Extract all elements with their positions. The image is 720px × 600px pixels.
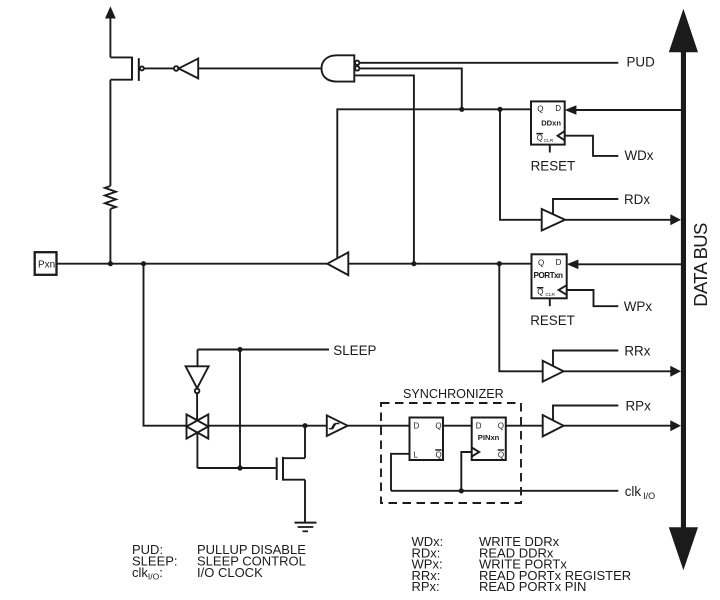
svg-text:Q: Q xyxy=(498,421,504,430)
junction: SLEEP branch xyxy=(237,347,242,352)
svg-text:D: D xyxy=(414,421,420,430)
PINxn Qbar overline xyxy=(498,449,505,451)
buffer U4 RDx xyxy=(542,209,565,231)
svg-text:Q: Q xyxy=(498,451,504,460)
wire: nMOS source to ground xyxy=(304,480,306,523)
wire: PORTxn CLR to RESET xyxy=(549,298,551,306)
wire: DDxn Q net to driver enable xyxy=(337,109,531,258)
wire: PORTxn Q net to RRx buffer input xyxy=(499,264,542,372)
svg-text:SLEEP: SLEEP xyxy=(333,343,376,358)
arrowhead: RDx to bus xyxy=(670,214,681,225)
wire: SLEEP vertical branch xyxy=(239,350,241,469)
wire: net WDx to DDxn clock xyxy=(565,136,619,156)
junction: pin input tap xyxy=(141,261,146,266)
wire: RRx enable xyxy=(553,351,618,367)
wire: pMOS drain to resistor xyxy=(109,80,111,186)
wire: pin rail down to input path xyxy=(144,264,187,426)
wire: data bus to PORTxn D xyxy=(578,263,682,265)
junction: clamp on input path xyxy=(302,423,307,428)
transmission gate U9 xyxy=(187,414,209,438)
svg-text:READ PORTx PIN: READ PORTx PIN xyxy=(479,579,586,594)
wire: nMOS drain to input path xyxy=(304,426,306,459)
wire: DDxn CLR to RESET xyxy=(549,145,551,153)
wire: net PUD xyxy=(360,62,619,64)
wire: data bus to DDxn D xyxy=(576,109,682,111)
DDxn Qbar overline xyxy=(536,133,543,135)
wire: RDx enable xyxy=(553,199,618,215)
svg-text:D: D xyxy=(556,258,562,267)
data bus bar xyxy=(681,52,686,528)
ground xyxy=(295,523,317,532)
wire: transmission gate bottom control xyxy=(196,433,198,468)
arrowhead: RRx to bus xyxy=(670,366,681,377)
wire: net WPx to PORTxn clock xyxy=(567,290,619,306)
svg-text:Q: Q xyxy=(435,421,441,430)
svg-text:PORTxn: PORTxn xyxy=(534,271,564,280)
VCC arrow xyxy=(105,6,116,57)
wire: RPx enable xyxy=(553,406,618,421)
svg-text:D: D xyxy=(555,104,561,113)
arrowhead: RPx to bus xyxy=(670,420,681,431)
svg-text:WPx: WPx xyxy=(624,299,653,314)
svg-text:WDx: WDx xyxy=(625,148,654,163)
wire: DDxn Q to RDx buffer input xyxy=(500,109,542,220)
svg-text:PINxn: PINxn xyxy=(478,433,500,442)
svg-text:L: L xyxy=(414,451,419,460)
svg-text:SYNCHRONIZER: SYNCHRONIZER xyxy=(403,387,504,401)
junction: AND input2 on DDxn Q net xyxy=(459,107,464,112)
svg-text:RDx: RDx xyxy=(624,192,650,207)
wire: AND input2 to DDxn Q net xyxy=(360,68,462,109)
wire: inverter input to AND output xyxy=(198,67,322,69)
junction: RRx tap on PORTxn Q net xyxy=(497,261,502,266)
wire: VCC to pMOS source xyxy=(110,56,131,58)
wire: AND input3 to PORTxn Q net xyxy=(354,75,414,263)
buffer U7 RRx xyxy=(543,361,564,382)
wire: SLEEP to inverter U8 xyxy=(197,350,199,367)
svg-text:RPx:: RPx: xyxy=(412,579,440,594)
wire: PINxn Q to RPx buffer xyxy=(506,425,543,427)
svg-text:Q: Q xyxy=(537,104,543,113)
pad Pxn box xyxy=(35,252,57,275)
wire: RPx buffer to data bus xyxy=(564,425,673,427)
wire: net clk I/O xyxy=(391,490,618,492)
junction: RDx tap on DDxn Q net xyxy=(497,107,502,112)
svg-text:Q: Q xyxy=(538,258,544,267)
flip-flop U12 PINxn box xyxy=(472,418,506,461)
svg-text:Q: Q xyxy=(537,288,543,297)
svg-text:I/O CLOCK: I/O CLOCK xyxy=(197,565,263,580)
wire: latch U11 Q to PINxn D xyxy=(443,425,472,427)
schmitt trigger U10 xyxy=(327,415,348,436)
svg-text:CLR: CLR xyxy=(545,292,555,298)
wire: pin rail Pxn to output driver xyxy=(57,263,328,265)
buffer U13 RPx xyxy=(543,415,564,436)
svg-text:DDxn: DDxn xyxy=(541,119,561,128)
wire: net SLEEP xyxy=(198,349,330,351)
svg-text:DATA BUS: DATA BUS xyxy=(690,223,711,307)
wire: schmitt output to synchronizer xyxy=(348,425,410,427)
wire: RRx buffer to data bus xyxy=(564,370,673,372)
svg-text:Q: Q xyxy=(537,133,543,142)
svg-text:RPx: RPx xyxy=(626,398,652,413)
flip-flop U6 PORTxn box xyxy=(532,254,567,298)
transistor Q2 nMOS clamp xyxy=(277,457,305,481)
wire: sleep clamp to nMOS gate xyxy=(197,467,275,469)
PORTxn clock wedge xyxy=(559,285,567,295)
junction: AND input3 on PORTxn Q net xyxy=(411,261,416,266)
arrowhead: bus to DDxn D xyxy=(565,105,577,115)
svg-text:Q: Q xyxy=(436,451,442,460)
wire: PORTxn Q net rail xyxy=(348,263,531,265)
wire: RDx buffer to data bus xyxy=(565,219,672,221)
flip-flop U5 DDxn box xyxy=(531,101,565,144)
latch U11 box xyxy=(410,418,444,461)
wire: pMOS gate to inverter U1 xyxy=(144,67,174,69)
svg-text:RESET: RESET xyxy=(531,158,576,173)
svg-text:CLR: CLR xyxy=(544,138,554,144)
svg-text:RRx: RRx xyxy=(624,343,650,358)
wire: latch U11 L input xyxy=(391,454,410,491)
inverter U1 (pull-up enable) xyxy=(174,59,198,79)
wire: clk to PINxn clock xyxy=(461,452,471,491)
junction: pull-up on pin rail xyxy=(108,261,113,266)
svg-text:RESET: RESET xyxy=(530,313,575,328)
junction: SLEEP to clamp xyxy=(237,465,242,470)
resistor R1 pull-up xyxy=(105,186,116,209)
svg-text:D: D xyxy=(476,421,482,430)
and-gate U2 (mirrored, pull-up enable) xyxy=(322,55,360,81)
wire: inverter U8 to transmission gate top control xyxy=(196,393,198,420)
arrowhead: bus to PORTxn D xyxy=(567,260,579,270)
tri-state output driver U3 xyxy=(327,252,348,275)
wire: resistor to pin rail xyxy=(109,209,111,264)
PORTxn Qbar overline xyxy=(537,287,544,289)
data bus bottom arrowhead xyxy=(669,527,698,570)
inverter U8 (sleep, pointing down) xyxy=(186,366,209,393)
DDxn clock wedge xyxy=(558,131,565,140)
data bus top arrowhead xyxy=(669,9,698,53)
synchronizer dashed box xyxy=(381,403,521,503)
junction: clk net xyxy=(459,488,464,493)
latch U11 Qbar overline xyxy=(435,449,442,451)
PINxn clock wedge xyxy=(472,448,480,457)
wire: transmission gate to schmitt trigger xyxy=(208,425,326,427)
svg-text:clkI/O: clkI/O xyxy=(625,484,655,501)
transistor Q1 pMOS pull-up xyxy=(110,57,143,81)
svg-text:Pxn: Pxn xyxy=(38,259,55,270)
svg-text:PUD: PUD xyxy=(627,55,656,70)
